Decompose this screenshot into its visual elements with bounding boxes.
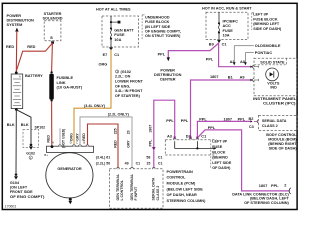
svg-text:CLASS 2: CLASS 2 <box>156 186 160 201</box>
svg-text:PPL: PPL <box>181 119 189 123</box>
svg-text:INSTRUMENT PANEL: INSTRUMENT PANEL <box>253 97 297 101</box>
svg-text:DISTRIBUTION: DISTRIBUTION <box>154 73 182 77</box>
svg-text:SERIAL DATA: SERIAL DATA <box>262 119 287 123</box>
svg-text:1807: 1807 <box>210 75 219 79</box>
svg-text:(BEHIND RIGHT: (BEHIND RIGHT <box>268 142 297 146</box>
svg-text:B+: B+ <box>44 153 48 157</box>
fuse block: IPC/BFC ACC FUSE 10A (left I/P) <box>202 7 252 41</box>
svg-text:OF ENGINE COMPT,: OF ENGINE COMPT, <box>145 29 181 33</box>
svg-text:POWER: POWER <box>7 14 22 18</box>
fuse element GEN BATT FUSE <box>110 27 112 29</box>
svg-text:STEERING COLUMN): STEERING COLUMN) <box>167 199 207 203</box>
wire PPL to power distribution center (page arrow) <box>154 43 219 82</box>
border frame <box>2 3 297 209</box>
svg-text:(ON LEFT: (ON LEFT <box>10 185 28 189</box>
svg-text:OF ENG,: OF ENG, <box>115 84 130 88</box>
svg-text:B1: B1 <box>228 75 234 79</box>
label UNDERHOOD FUSE BLOCK <box>142 15 181 40</box>
fusible link (10 GA-RUST) <box>49 71 83 102</box>
svg-text:LEFT I/P: LEFT I/P <box>253 13 268 17</box>
svg-text:FUSE BLOCK: FUSE BLOCK <box>253 17 278 21</box>
wire RED battery to power distribution <box>6 31 17 72</box>
svg-text:PPL: PPL <box>271 184 279 188</box>
svg-text:OLDSMOBILE: OLDSMOBILE <box>255 44 281 48</box>
svg-text:PPL: PPL <box>238 118 246 122</box>
svg-text:A: A <box>19 75 21 79</box>
wire (NOT USED) generator A terminal <box>60 128 65 148</box>
svg-text:L CONTROL: L CONTROL <box>120 179 124 200</box>
pin labels PCM <box>96 156 163 166</box>
svg-text:49: 49 <box>125 162 129 166</box>
svg-text:OF STEERING COLUMN): OF STEERING COLUMN) <box>244 201 289 205</box>
svg-text:225: 225 <box>114 128 118 134</box>
svg-text:C1: C1 <box>222 42 228 46</box>
svg-text:HOT IN ACC, RUN & START: HOT IN ACC, RUN & START <box>202 7 252 11</box>
wire BLK battery to G104 <box>7 110 16 173</box>
svg-text:CLUSTER (IPC): CLUSTER (IPC) <box>263 102 296 106</box>
powertrain control module (PCM) box <box>109 167 163 208</box>
svg-text:PPL: PPL <box>158 53 166 57</box>
svg-text:BLOCK: BLOCK <box>212 150 226 154</box>
svg-text:RED: RED <box>46 135 50 143</box>
svg-text:CONTROL: CONTROL <box>167 176 187 180</box>
svg-text:(G102: (G102 <box>121 70 131 74</box>
svg-text:SOLENOID: SOLENOID <box>42 17 62 21</box>
svg-text:IPC/BFC: IPC/BFC <box>223 19 239 23</box>
volts indicator gauge <box>266 68 279 81</box>
svg-text:BODY CONTROL: BODY CONTROL <box>266 133 297 137</box>
svg-text:10A: 10A <box>223 34 230 38</box>
splice SP102 <box>23 126 45 148</box>
svg-text:(IN LEFT SIDE: (IN LEFT SIDE <box>145 25 171 29</box>
svg-text:FRONT SIDE: FRONT SIDE <box>10 190 33 194</box>
svg-text:A: A <box>52 141 54 145</box>
svg-text:(BEHIND: (BEHIND <box>212 156 228 160</box>
svg-text:FUSE: FUSE <box>223 29 234 33</box>
svg-text:10A: 10A <box>114 38 121 42</box>
connector B9 / C1 <box>209 40 228 46</box>
svg-text:PPL: PPL <box>149 139 153 147</box>
svg-text:C3: C3 <box>249 125 254 129</box>
svg-text:STARTER: STARTER <box>44 12 62 16</box>
wire PPL serial data IPC B1/A9 to junction D2 <box>191 75 251 138</box>
svg-text:GEN BATT: GEN BATT <box>114 28 134 32</box>
svg-text:BATTERY: BATTERY <box>25 74 43 78</box>
svg-text:1807: 1807 <box>259 184 268 188</box>
svg-text:PONTIAC: PONTIAC <box>255 51 273 55</box>
svg-text:DISTRIBUTION: DISTRIBUTION <box>7 19 35 23</box>
connector E7 / C1 <box>103 47 120 57</box>
svg-text:OF ENG COMPT): OF ENG COMPT) <box>10 195 45 199</box>
svg-text:C1: C1 <box>158 162 163 166</box>
svg-text:PPL: PPL <box>206 58 214 62</box>
wire RED 225 generator B to PCM 50 <box>82 124 118 168</box>
svg-text:LOWER FRONT: LOWER FRONT <box>115 80 144 84</box>
svg-text:SOLID STATE: SOLID STATE <box>260 60 285 64</box>
svg-text:C1: C1 <box>158 156 163 160</box>
svg-text:POWERTRAIN: POWERTRAIN <box>167 170 193 174</box>
svg-text:FUSE: FUSE <box>212 145 223 149</box>
ground G104 <box>10 173 45 199</box>
svg-text:UNDERHOOD: UNDERHOOD <box>145 16 170 20</box>
svg-text:ACC: ACC <box>223 24 232 28</box>
svg-text:RED: RED <box>82 133 86 141</box>
svg-text:2: 2 <box>284 183 286 187</box>
wire BLK battery to splice SP102 <box>17 110 31 144</box>
wire GRY generator C to PCM 49 <box>75 112 132 167</box>
svg-text:SIDE OF DASH): SIDE OF DASH) <box>253 27 282 31</box>
svg-text:(3.4L ONLY): (3.4L ONLY) <box>84 104 106 108</box>
svg-text:OF DASH, NEAR: OF DASH, NEAR <box>167 193 198 197</box>
svg-text:PPL: PPL <box>199 118 207 122</box>
wire RED solenoid B to battery <box>16 43 52 71</box>
svg-text:OF DASH): OF DASH) <box>212 166 231 170</box>
svg-text:(NOT USED): (NOT USED) <box>61 129 65 148</box>
svg-text:RED: RED <box>6 45 14 49</box>
svg-text:RED: RED <box>114 140 118 148</box>
svg-text:15: 15 <box>146 162 150 166</box>
svg-text:A3: A3 <box>167 135 172 139</box>
svg-text:(BEHIND LEFT: (BEHIND LEFT <box>253 22 280 26</box>
svg-text:GRY: GRY <box>127 140 131 148</box>
svg-text:LEFT SIDE: LEFT SIDE <box>212 161 232 165</box>
junction block (left I/P fuse block) A3 D2 C1 <box>165 135 216 155</box>
svg-text:D2: D2 <box>186 135 191 139</box>
svg-text:A8: A8 <box>240 60 246 64</box>
label POWERTRAIN CONTROL MODULE <box>167 170 207 203</box>
svg-text:HOT AT ALL TIMES: HOT AT ALL TIMES <box>96 8 131 12</box>
svg-text:PPL: PPL <box>208 126 216 130</box>
starter solenoid <box>42 12 62 44</box>
battery <box>11 71 43 110</box>
wire PPL junction C1 to DLC <box>198 126 289 191</box>
svg-text:E7: E7 <box>103 53 108 57</box>
svg-text:3.4L: IN FRONT: 3.4L: IN FRONT <box>115 89 143 93</box>
wire PPL junction A3 to PCM serial data <box>149 100 175 168</box>
svg-text:(BELOW LEFT SIDE: (BELOW LEFT SIDE <box>167 187 204 191</box>
svg-text:G104: G104 <box>10 181 20 185</box>
svg-text:RED: RED <box>27 45 35 49</box>
svg-text:OF STARTER): OF STARTER) <box>115 94 141 98</box>
wire RED solenoid to fusible link <box>51 43 54 72</box>
svg-text:CLASS 2: CLASS 2 <box>262 124 278 128</box>
svg-text:B9: B9 <box>209 42 214 46</box>
svg-text:SP102: SP102 <box>35 126 46 130</box>
label LEFT I/P FUSE BLOCK (junction) <box>211 140 232 171</box>
svg-text:58: 58 <box>146 156 150 160</box>
generator <box>44 141 93 205</box>
svg-text:MODULE (PCM): MODULE (PCM) <box>167 182 197 186</box>
svg-text:C1: C1 <box>114 53 120 57</box>
svg-text:IND: IND <box>270 85 277 89</box>
svg-text:CENTER: CENTER <box>160 78 176 82</box>
svg-text:FUSE: FUSE <box>114 33 125 37</box>
svg-text:2.2L: ON: 2.2L: ON <box>115 75 131 79</box>
svg-text:(3.4L) 61: (3.4L) 61 <box>96 156 110 160</box>
svg-text:170601: 170601 <box>5 204 16 208</box>
svg-text:1807: 1807 <box>149 125 153 133</box>
note G102 location <box>115 70 144 98</box>
fuse block: GEN BATT FUSE 10A (underhood) <box>96 8 139 47</box>
svg-text:SYSTEM: SYSTEM <box>7 23 23 27</box>
svg-text:BLK: BLK <box>7 123 15 127</box>
svg-text:POWER: POWER <box>160 68 175 72</box>
svg-text:C1: C1 <box>201 135 207 139</box>
svg-text:(2.2L) 50: (2.2L) 50 <box>96 162 110 166</box>
body control module (BCM) box <box>249 115 298 150</box>
svg-text:A2: A2 <box>230 60 235 64</box>
wire RED fusible link to generator B+ <box>46 101 52 146</box>
svg-text:LEFT I/P: LEFT I/P <box>212 140 227 144</box>
fuse element IPC/BFC ACC FUSE <box>218 22 220 24</box>
svg-text:ON STRUT TOWER): ON STRUT TOWER) <box>145 34 181 38</box>
svg-text:GENERATOR: GENERATOR <box>57 167 81 171</box>
wire PPL junction C1 to BCM B2 <box>197 118 250 139</box>
svg-text:1807: 1807 <box>224 118 233 122</box>
labels OLDSMOBILE / PONTIAC pin pointers <box>230 44 281 65</box>
label LEFT I/P FUSE BLOCK <box>252 13 282 31</box>
bus wire inside junction block <box>175 141 214 148</box>
svg-text:B2: B2 <box>249 117 254 121</box>
ground G102 <box>26 144 35 160</box>
pin bump A2/A8 <box>250 66 252 68</box>
svg-text:F INPUT: F INPUT <box>134 186 138 200</box>
svg-text:C1: C1 <box>136 162 141 166</box>
svg-text:FUSE BLOCK: FUSE BLOCK <box>145 20 170 24</box>
wire PPL fuse to IPC pin A2/A8 <box>206 43 251 67</box>
svg-text:BLK: BLK <box>21 123 29 127</box>
svg-text:23: 23 <box>127 130 131 134</box>
wire ORG gen batt fuse to generator D terminal <box>69 50 111 145</box>
data link connector (DLC) <box>232 183 290 204</box>
svg-text:(10 GA-RUST): (10 GA-RUST) <box>57 85 83 90</box>
svg-text:A9: A9 <box>240 75 245 79</box>
pin bump B1/A9 <box>250 79 252 81</box>
svg-text:GRY: GRY <box>75 133 79 141</box>
svg-text:ORG: ORG <box>99 63 108 67</box>
svg-text:PPL: PPL <box>166 119 174 123</box>
instrument panel cluster (IPC) box <box>250 58 297 105</box>
svg-text:MODULE (BCM): MODULE (BCM) <box>268 138 297 142</box>
generator case ground <box>69 198 72 201</box>
node POWER DISTRIBUTION SYSTEM page-arrow <box>7 14 35 31</box>
svg-text:SIDE OF DASH): SIDE OF DASH) <box>269 146 298 150</box>
svg-text:(2.2L ONLY): (2.2L ONLY) <box>108 112 130 116</box>
